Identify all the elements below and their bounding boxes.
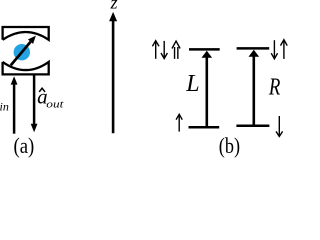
level R-top — [237, 47, 270, 50]
state label double-up-arrow (heavy hole, trion L) — [172, 41, 180, 59]
state label up-arrow (trion R) — [281, 40, 288, 59]
transition arrow R — [249, 50, 260, 125]
spin arrow on atom — [11, 36, 36, 66]
z axis — [109, 12, 117, 133]
state label up-arrow (trion L) — [152, 41, 159, 59]
label a-hat out — [37, 85, 64, 111]
state label down-arrow (trion L) — [161, 41, 167, 59]
state label down-arrow (trion R) — [271, 40, 277, 59]
svg-text:in: in — [0, 100, 9, 114]
output mode arrow a_out (down) — [31, 75, 38, 132]
atom (quantum dot) — [14, 44, 30, 60]
input mode arrow a_in (up) — [11, 76, 18, 134]
svg-text:out: out — [46, 98, 64, 110]
svg-text:z: z — [109, 0, 117, 12]
ground state down-arrow (right) — [276, 116, 283, 137]
svg-text:(b): (b) — [219, 133, 240, 158]
transition arrow L — [202, 51, 213, 126]
svg-text:L: L — [185, 71, 199, 97]
svg-text:(a): (a) — [14, 133, 35, 158]
level R-bottom — [236, 125, 269, 128]
level L-top — [189, 48, 220, 51]
mirror M1 (top, plano-concave) — [3, 27, 49, 40]
mirror M2 (bottom, plano-concave) — [3, 62, 49, 75]
ground state up-arrow (left) — [176, 114, 182, 131]
level L-bottom — [189, 126, 220, 129]
svg-text:R: R — [268, 74, 281, 100]
